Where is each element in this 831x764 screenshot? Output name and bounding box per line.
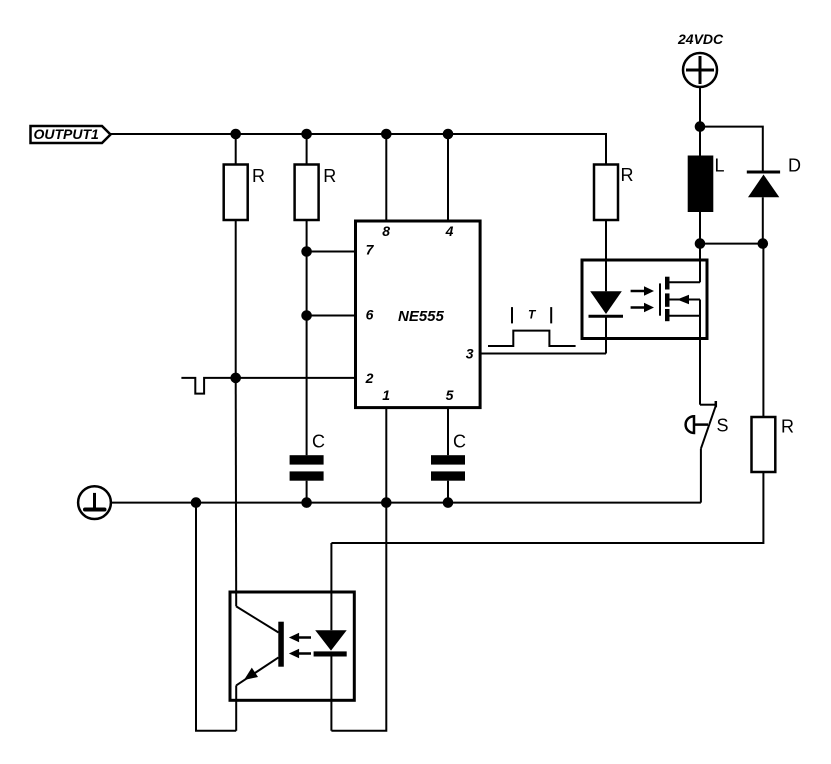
wire supply down to inductor	[699, 87, 701, 156]
svg-text:C: C	[312, 432, 325, 452]
svg-text:1: 1	[382, 387, 390, 403]
resistor R3	[594, 165, 634, 221]
wire to diode top	[700, 127, 763, 171]
svg-text:R: R	[621, 165, 634, 185]
svg-text:R: R	[252, 166, 265, 186]
resistor R1	[224, 134, 265, 220]
wire ground rail	[111, 502, 701, 504]
node junction pin 7	[302, 247, 311, 256]
wire pin 4	[447, 134, 449, 221]
wire L bottom	[699, 212, 701, 260]
ground symbol	[78, 486, 111, 519]
supply 24VDC	[677, 31, 724, 87]
wire pin 5 to C2	[447, 408, 449, 456]
svg-text:L: L	[715, 156, 725, 176]
optocoupler U2 box (photoMOS)	[582, 260, 707, 339]
node junction ground rail at C1	[302, 498, 311, 507]
switch S pushbutton	[686, 401, 729, 503]
node junction supply to diode branch	[696, 122, 705, 131]
svg-text:4: 4	[445, 223, 454, 239]
wire R1 bottom to pin2 node	[235, 220, 237, 378]
svg-text:8: 8	[382, 223, 390, 239]
net flag OUTPUT1	[31, 126, 111, 143]
wire pin 7	[307, 251, 356, 253]
node junction pin 2	[231, 374, 240, 383]
MOSFET of optocoupler U2	[660, 244, 700, 405]
node junction top rail at R1	[231, 130, 240, 139]
svg-text:R: R	[781, 417, 794, 437]
resistor R4 (bottom right)	[752, 417, 795, 473]
inductor L (relay coil)	[688, 156, 725, 213]
wire top rail from OUTPUT1 to R3 corner	[111, 134, 607, 165]
wire pin2 node down to optocoupler collector	[235, 378, 238, 607]
LED of optocoupler U2	[589, 291, 624, 353]
svg-text:6: 6	[366, 307, 374, 323]
svg-text:24VDC: 24VDC	[677, 31, 724, 47]
svg-text:2: 2	[365, 370, 374, 386]
LED of optocoupler U3	[314, 543, 347, 731]
node junction top rail at R2	[302, 130, 311, 139]
wire pin 6	[307, 315, 356, 317]
node junction top rail at pin 8	[382, 130, 391, 139]
wire diode bottom branch	[700, 243, 763, 245]
wire pin 8	[385, 134, 387, 221]
transistor of optocoupler U3	[236, 606, 284, 730]
node junction L bottom	[696, 239, 705, 248]
node junction ground rail at C2	[444, 498, 453, 507]
svg-text:3: 3	[466, 346, 474, 362]
light arrows of optocoupler U3	[289, 633, 311, 658]
wire R2 bottom down to C1	[306, 220, 308, 455]
wire R4 top up to diode node	[762, 244, 764, 417]
wire pin 3 output	[480, 353, 606, 355]
negative pulse waveform symbol	[181, 378, 220, 394]
svg-text:R: R	[323, 166, 336, 186]
diode D	[747, 156, 801, 244]
node junction top rail at pin 4	[444, 130, 453, 139]
svg-text:S: S	[717, 416, 729, 436]
wire R3 bottom to LED anode	[605, 220, 607, 291]
wire bottom feedback rail	[331, 472, 763, 543]
capacitor C2	[431, 432, 466, 503]
wire pin1 column down to bottom	[331, 503, 386, 731]
light arrows of optocoupler U2	[631, 286, 654, 312]
wire pin 1 to ground rail	[385, 408, 387, 503]
node junction diode bottom	[759, 239, 768, 248]
op-amp U1 NE555 timer	[356, 221, 481, 408]
svg-text:5: 5	[446, 387, 454, 403]
node junction ground rail at pin 1	[382, 498, 391, 507]
capacitor C1	[290, 432, 325, 503]
svg-text:D: D	[788, 156, 801, 176]
node junction ground rail left drop	[192, 498, 201, 507]
pulse waveform symbol T	[488, 307, 576, 346]
svg-text:7: 7	[366, 242, 375, 258]
wire ground drop to bottom left	[196, 503, 236, 731]
svg-text:NE555: NE555	[398, 308, 445, 325]
node junction pin 6	[302, 311, 311, 320]
optocoupler U3 box (bottom)	[230, 592, 354, 700]
svg-text:C: C	[453, 432, 466, 452]
wire pin 2	[221, 377, 356, 379]
resistor R2	[295, 134, 337, 220]
svg-text:OUTPUT1: OUTPUT1	[34, 126, 100, 142]
